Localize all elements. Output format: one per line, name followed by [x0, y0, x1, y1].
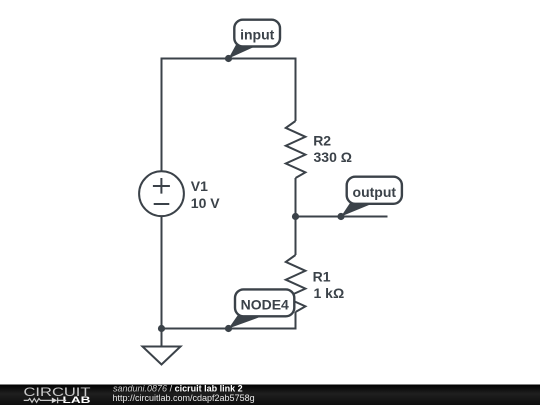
- svg-text:output: output: [353, 184, 397, 200]
- svg-text:NODE4: NODE4: [241, 297, 289, 313]
- logo circuit squiggle wire: [24, 399, 52, 403]
- flag output box: [347, 177, 402, 204]
- ground symbol: [143, 347, 181, 365]
- wire top horizontal + left/right corners: [162, 59, 296, 173]
- voltage source V1 circle: [139, 171, 184, 216]
- node dot: NODE4 flag: [225, 325, 232, 332]
- wire left vertical lower: [161, 217, 163, 329]
- svg-text:R2: R2: [313, 133, 331, 149]
- wire output horizontal: [296, 216, 388, 218]
- V1 plus sign: [153, 178, 170, 194]
- ground stub: [161, 329, 163, 347]
- svg-text:330 Ω: 330 Ω: [314, 149, 352, 165]
- svg-text:1 kΩ: 1 kΩ: [314, 285, 345, 301]
- flag NODE4 box: [235, 289, 294, 316]
- flag input box: [234, 20, 280, 47]
- flag output tail: [341, 200, 372, 217]
- node junction dot: ground corner: [158, 325, 165, 332]
- wire bottom horizontal: [162, 312, 296, 329]
- V1 minus sign: [154, 203, 170, 205]
- svg-text:V1: V1: [191, 178, 208, 194]
- wire right vertical middle: [295, 178, 297, 255]
- node junction dot: input: [225, 55, 232, 62]
- logo diode: [52, 398, 57, 404]
- node dot: output flag: [337, 213, 344, 220]
- svg-text:R1: R1: [313, 268, 331, 284]
- resistor R2: [286, 121, 306, 178]
- svg-text:input: input: [240, 27, 275, 43]
- svg-text:10 V: 10 V: [191, 195, 220, 211]
- svg-text:http://circuitlab.com/cdapf2ab: http://circuitlab.com/cdapf2ab5758g: [113, 393, 255, 403]
- resistor R1: [286, 255, 306, 312]
- node junction dot: output wire on right rail: [292, 213, 299, 220]
- svg-text:sanduni.0876 / cicruit lab lin: sanduni.0876 / cicruit lab link 2: [113, 383, 243, 393]
- svg-text:LAB: LAB: [63, 395, 91, 405]
- flag input tail: [229, 41, 256, 59]
- flag NODE4 tail: [229, 312, 263, 329]
